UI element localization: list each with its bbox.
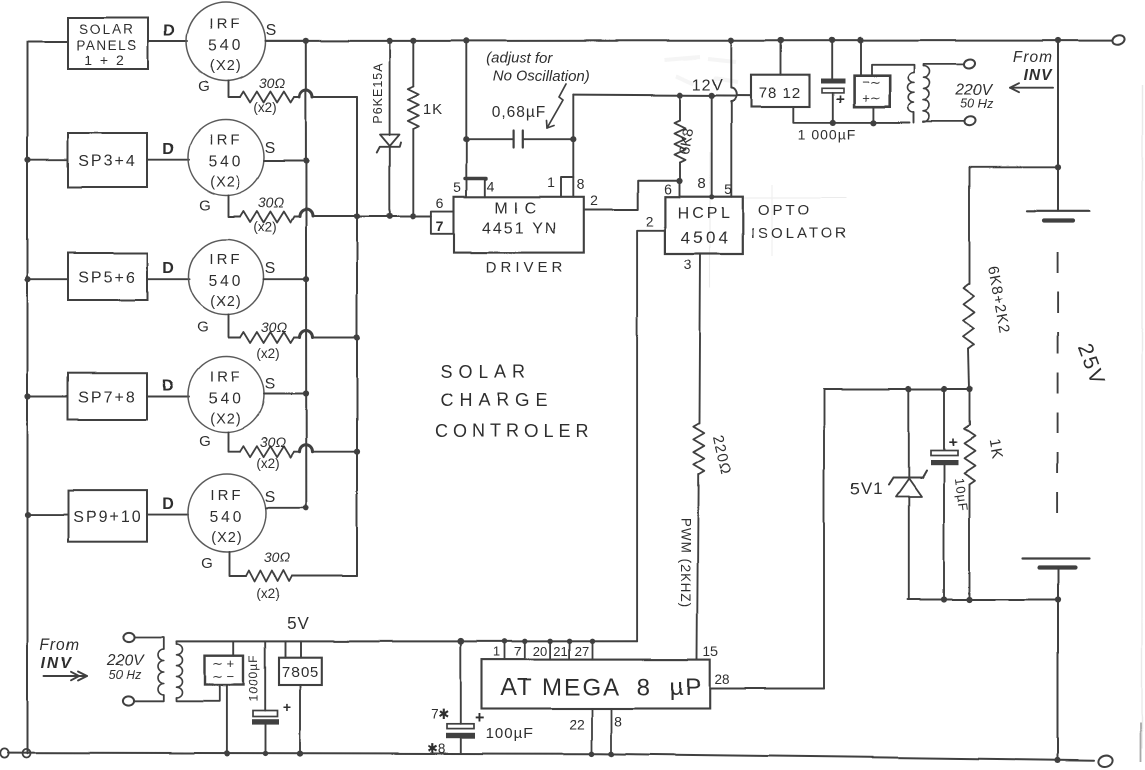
svg-text:1000µF: 1000µF	[247, 655, 261, 702]
rectifier BR2 box	[205, 656, 244, 685]
wire top rail to R-1K	[412, 41, 414, 86]
svg-text:30Ω: 30Ω	[260, 434, 287, 450]
terminal 220V-in bottom	[123, 696, 134, 705]
svg-text:1 000µF: 1 000µF	[798, 126, 857, 142]
wire top rail to HCPL pin5 (with hop)	[731, 41, 736, 197]
node gate-bus row3 junction	[354, 334, 360, 340]
svg-text:D: D	[162, 496, 174, 513]
wire gate row1 to gate bus	[313, 96, 358, 98]
wire 220R to ATmega pin15	[697, 474, 698, 660]
svg-text:5V1: 5V1	[850, 479, 883, 498]
node S-bus row4 junction	[303, 391, 309, 397]
svg-text:G: G	[201, 555, 213, 572]
wire 5V1 bottom lead	[908, 497, 910, 600]
wire T1 primary top lead	[872, 65, 915, 76]
svg-text:PANELS: PANELS	[76, 38, 137, 53]
svg-text:✱8: ✱8	[427, 741, 446, 756]
svg-text:OPTO: OPTO	[758, 202, 812, 219]
node 6K8/pin6 junction	[676, 178, 682, 184]
wire left-bus to SP3 box	[28, 278, 69, 280]
svg-text:G: G	[199, 433, 211, 450]
wire T1 secondary bottom lead	[924, 120, 965, 123]
svg-text:4504: 4504	[681, 228, 731, 247]
wire gate row4 to gate bus	[313, 451, 358, 453]
wire S lead row3	[264, 278, 307, 280]
node 5V-rail pin1 junction	[502, 639, 507, 644]
resistor 30R gate row3	[240, 332, 294, 343]
battery B1 dashed body	[1057, 252, 1059, 528]
svg-text:7: 7	[514, 644, 521, 659]
wire top rail to 7812	[780, 41, 782, 76]
svg-text:INV: INV	[1024, 67, 1054, 84]
op-amp U1 MIC4451 box	[454, 197, 584, 253]
wire gate row2 to hop	[294, 216, 300, 218]
svg-text:50 Hz: 50 Hz	[961, 97, 994, 111]
node battery bottom junction	[1055, 757, 1061, 763]
diode Z1 5V1 zener	[889, 471, 927, 485]
wire divider to 6K8+2K2	[969, 167, 971, 284]
capacitor C6 100uF plates	[447, 724, 474, 729]
wire 12V to HCPL pin8	[711, 95, 713, 196]
resistor R 6K8	[675, 120, 686, 162]
wire gate lead row4	[229, 433, 241, 452]
wire 7805 output stub	[300, 641, 302, 657]
svg-text:AT MEGA 8 µP: AT MEGA 8 µP	[501, 674, 703, 701]
node C1 left junction	[463, 136, 469, 142]
inductor T2 primary winding	[158, 649, 164, 695]
node 7805 gnd junction	[297, 751, 303, 757]
wire ATmega pin28 lead	[710, 688, 824, 690]
svg-text:G: G	[197, 319, 209, 336]
svg-text:7: 7	[436, 218, 444, 234]
node 5V/100uF junction	[457, 638, 464, 645]
rectifier BR1 box	[854, 76, 890, 107]
wire T2 primary bottom lead	[134, 695, 164, 701]
inductor T1 secondary winding	[924, 66, 930, 122]
svg-text:1 + 2: 1 + 2	[84, 52, 126, 68]
battery B1 bottom plates	[1022, 557, 1090, 559]
wire T1 primary bottom lead	[913, 112, 915, 123]
wire D1 to driver-input net	[389, 147, 391, 216]
node battery gnd-line junction	[1055, 596, 1061, 602]
arrow From-INV (top)	[1010, 87, 1053, 89]
wire gate lead row1	[229, 81, 241, 97]
resistor 1K (driver input)	[408, 86, 419, 129]
wire 12V rail down to U1 pin8	[572, 95, 574, 178]
resistor 30R gate row1	[240, 92, 294, 103]
svg-text:(x2): (x2)	[253, 219, 276, 234]
node tap 10uF junction	[941, 386, 947, 392]
arrow annotation to C1	[547, 84, 566, 128]
node top-rail bridge junction	[857, 37, 863, 43]
inductor T1 primary winding	[907, 73, 914, 113]
terminal 220V bottom	[964, 116, 977, 127]
node top-rail HCPL5 junction	[728, 38, 734, 44]
wire top rail to C2	[831, 40, 833, 78]
wire 6K8 to HCPL pin6 node	[679, 162, 681, 181]
wire BR1 bottom to gnd line	[872, 107, 874, 123]
svg-text:7✱: 7✱	[431, 707, 450, 722]
svg-text:SP3+4: SP3+4	[78, 153, 136, 170]
wire gate bus (vertical x=357)	[356, 97, 358, 576]
svg-text:(X2): (X2)	[210, 175, 241, 191]
resistor 30R gate row2	[240, 211, 294, 222]
wire hop over S-bus row1	[300, 90, 313, 97]
svg-text:100µF: 100µF	[486, 725, 534, 742]
node pin8 gnd junction	[609, 751, 615, 757]
wire D lead SP2	[147, 159, 189, 161]
svg-text:D: D	[162, 260, 174, 277]
resistor R 220R (PWM)	[693, 423, 704, 474]
wire top rail to bridge BR1	[860, 40, 862, 75]
svg-text:5: 5	[453, 179, 461, 195]
wire 1K(right) top lead	[969, 389, 971, 425]
node 10uF gnd junction	[941, 596, 947, 602]
wire HCPL pin2 to 5V bus	[637, 230, 665, 641]
svg-text:IRF: IRF	[210, 487, 243, 504]
node S-bus top junction	[303, 38, 309, 44]
svg-text:From: From	[1013, 49, 1053, 66]
transistor Q1 IRF540 (X2) circle	[187, 2, 266, 81]
node S-bus row3 junction	[303, 276, 309, 282]
resistor 30R gate row4	[240, 446, 294, 457]
svg-text:SOLAR: SOLAR	[440, 362, 531, 382]
node S-bus row2 junction	[303, 158, 309, 164]
wire gate row2 to gate bus	[313, 216, 358, 218]
regulator U3 7812 box	[751, 75, 810, 107]
node top-rail 7812 junction	[778, 37, 784, 43]
node top-rail D1 junction	[387, 38, 393, 44]
solar panel block SP5+6 box	[68, 253, 147, 300]
svg-text:(X2): (X2)	[210, 59, 241, 75]
wire hop over S-bus row3	[300, 331, 313, 338]
svg-text:SOLAR: SOLAR	[79, 22, 135, 37]
svg-text:30Ω: 30Ω	[258, 194, 285, 210]
svg-text:30Ω: 30Ω	[259, 75, 286, 91]
wire bottom ground rail	[8, 753, 1094, 761]
wire left-bus to SP5 box	[28, 514, 69, 516]
node left-bus row2 junction	[25, 157, 31, 163]
svg-text:15: 15	[703, 644, 718, 659]
wire C5 bottom lead	[265, 725, 267, 754]
node pin22 gnd junction	[589, 751, 595, 757]
node 5V-rail pin21 junction	[566, 639, 571, 644]
svg-text:D: D	[162, 377, 174, 394]
svg-text:IRF: IRF	[209, 369, 242, 386]
wire S lead row5	[266, 507, 306, 509]
wire top rail to U1 pin5	[465, 41, 467, 179]
wire C6 100uF top lead	[460, 641, 462, 724]
node 5V-rail pin20 junction	[547, 639, 552, 644]
wire S lead row2	[264, 160, 306, 162]
wire left-bus to SP2 box	[28, 159, 69, 161]
node top-rail U1-vcc junction	[463, 38, 469, 44]
microcontroller U5 ATmega8 box	[482, 660, 710, 709]
wire top rail to D1	[389, 41, 391, 135]
svg-text:5: 5	[724, 181, 732, 197]
node C1 right junction	[570, 136, 576, 142]
node top-rail C2 junction	[829, 37, 835, 43]
wire 7805 input stub	[285, 641, 287, 657]
wire C2 bottom lead	[832, 93, 834, 123]
svg-text:78 12: 78 12	[759, 85, 802, 102]
capacitor C4 10uF plates	[931, 451, 958, 456]
terminal bottom-right	[1097, 754, 1114, 769]
wire gate bus to MIC pins 6/7	[357, 216, 431, 218]
wire 5V1 top lead	[908, 389, 910, 477]
svg-text:1: 1	[493, 644, 500, 659]
svg-text:1K: 1K	[423, 101, 443, 118]
svg-text:+: +	[475, 708, 485, 727]
node D1 / input-net junction	[387, 213, 393, 219]
wire S lead row1	[266, 40, 307, 42]
wire U1 pin2 output	[584, 181, 680, 210]
svg-text:(adjust for: (adjust for	[486, 50, 554, 67]
wire BR2 plus stub	[233, 641, 235, 655]
svg-text:4: 4	[487, 178, 495, 194]
wire left panel bus (vertical, x=27)	[27, 42, 29, 754]
svg-text:12V: 12V	[692, 77, 723, 94]
svg-text:22: 22	[569, 716, 585, 732]
wire 10uF top lead	[943, 389, 945, 450]
svg-text:G: G	[199, 197, 211, 214]
svg-text:(x2): (x2)	[253, 100, 276, 115]
capacitor C2 1000uF plates	[821, 79, 845, 84]
wire D lead SP1	[148, 41, 188, 43]
wire T1 secondary top lead	[924, 64, 964, 66]
pin stub U5 pin 22	[591, 709, 593, 754]
svg-text:+: +	[836, 91, 845, 108]
svg-text:7805: 7805	[282, 664, 319, 681]
svg-text:220V: 220V	[106, 652, 145, 669]
wire gate row4 to hop	[294, 451, 300, 453]
svg-text:−∼: −∼	[862, 75, 880, 90]
svg-text:(X2): (X2)	[210, 412, 241, 428]
svg-text:+: +	[283, 699, 291, 715]
svg-text:6: 6	[436, 195, 444, 211]
wire gate row5 to gate bus	[292, 575, 357, 577]
wire left-bus to SP4 box	[28, 395, 69, 397]
wire 6K8+2K2 to tap node	[969, 349, 970, 389]
wire ADC tap to ATmega pin28 (vertical)	[823, 389, 825, 689]
svg-text:CHARGE: CHARGE	[440, 390, 553, 410]
svg-text:(X2): (X2)	[210, 294, 241, 310]
node 5V-rail pin27 junction	[589, 639, 594, 644]
wire D lead SP5	[147, 514, 188, 516]
svg-text:IRF: IRF	[209, 132, 242, 149]
svg-text:8: 8	[614, 713, 622, 729]
node C5 gnd junction	[263, 751, 268, 756]
solar panel block SP1+2 box	[68, 18, 148, 69]
node tap 5V1 junction	[906, 386, 912, 392]
wire pin6 into HCPL	[679, 181, 681, 197]
svg-text:2: 2	[646, 213, 654, 229]
node left-bus row4 junction	[25, 393, 31, 399]
wire gate lead row5	[230, 552, 247, 576]
svg-text:(X2): (X2)	[211, 530, 242, 546]
svg-text:5V: 5V	[287, 614, 310, 633]
inductor T2 secondary winding	[177, 644, 183, 698]
wire D lead SP4	[147, 395, 189, 397]
solar panel block SP3+4 box	[68, 133, 147, 187]
svg-text:S: S	[265, 140, 276, 157]
wire 12V rail	[573, 95, 751, 96]
wire 1K to driver-input net	[412, 129, 414, 216]
svg-text:From: From	[40, 637, 80, 654]
node S-bus row5 junction	[303, 505, 309, 511]
wire hop over S-bus row4	[300, 445, 313, 452]
wire divider tap	[970, 166, 1059, 168]
node C2 gnd junction	[830, 119, 836, 125]
node gate-bus row2/driver junction	[354, 213, 360, 219]
wire 1K(right) bottom lead	[969, 484, 971, 600]
node 1K / input-net junction	[410, 213, 416, 219]
arrow From-INV (bottom)	[44, 675, 87, 677]
wire ADC tap rail	[824, 388, 970, 390]
svg-text:(x2): (x2)	[256, 346, 279, 361]
node left-bus row5 junction	[25, 511, 31, 517]
svg-text:S: S	[266, 22, 277, 39]
node top-rail battery junction	[1055, 37, 1061, 43]
node 1K gnd junction	[966, 596, 972, 602]
wire 7812 gnd stub	[793, 107, 910, 123]
wire gate row3 to gate bus	[313, 337, 358, 339]
svg-text:+: +	[949, 434, 958, 451]
svg-text:8: 8	[698, 175, 706, 192]
node 5V-rail pin7 junction	[522, 639, 527, 644]
wire T2 secondary bottom lead	[177, 685, 220, 701]
svg-text:S: S	[265, 489, 276, 506]
svg-text:PWM (2KHZ): PWM (2KHZ)	[678, 518, 693, 608]
node BR2 gnd junction	[224, 750, 230, 756]
pin stub U5 pin 27	[591, 641, 593, 659]
terminal bottom-left inner	[23, 749, 31, 758]
wire D lead SP3	[147, 278, 190, 280]
wire S bus (vertical x=306)	[305, 41, 308, 508]
wire C1 right lead	[523, 138, 574, 140]
svg-text:540: 540	[209, 391, 244, 408]
terminal top-right	[1111, 34, 1126, 47]
svg-text:DRIVER: DRIVER	[486, 259, 567, 276]
diode D1 P6KE15A symbol	[380, 135, 400, 147]
wire C6 bottom lead	[460, 738, 462, 753]
svg-text:2: 2	[590, 192, 598, 208]
svg-text:G: G	[198, 78, 210, 95]
wire T2 secondary top lead	[176, 641, 178, 644]
svg-text:ISOLATOR: ISOLATOR	[751, 225, 849, 242]
svg-text:SP5+6: SP5+6	[78, 270, 136, 287]
solar panel block SP7+8 box	[68, 373, 147, 420]
svg-text:540: 540	[209, 154, 244, 171]
svg-text:D: D	[163, 23, 175, 40]
svg-text:6: 6	[664, 181, 672, 197]
node 12V HCPL-pin8 junction	[709, 92, 715, 98]
svg-text:D: D	[162, 141, 174, 158]
wire 12V to R-6K8	[679, 95, 681, 120]
pin stub U1 pins 6/7	[431, 212, 454, 234]
wire top rail (solar + / S line)	[266, 40, 1113, 42]
svg-text:S: S	[265, 260, 276, 277]
transistor Q4 IRF540 (X2) circle	[188, 357, 264, 433]
svg-text:1: 1	[547, 174, 555, 190]
wire C1 left lead	[466, 138, 513, 140]
svg-text:IRF: IRF	[209, 251, 242, 268]
node top-rail 1K junction	[410, 38, 416, 44]
svg-text:27: 27	[574, 644, 588, 659]
wire 7805 gnd lead	[299, 685, 301, 754]
pin stub U5 pin 1	[504, 641, 506, 659]
svg-text:3: 3	[684, 256, 692, 272]
svg-text:(x2): (x2)	[256, 456, 279, 471]
svg-text:SP7+8: SP7+8	[78, 389, 136, 406]
regulator U4 7805 box	[279, 658, 322, 685]
transistor Q2 IRF540 (X2) circle	[188, 120, 264, 196]
pin stub U5 pin 7	[524, 641, 526, 659]
svg-text:HCPL: HCPL	[678, 205, 733, 222]
terminal bottom-left outer	[0, 748, 8, 757]
svg-text:SP9+10: SP9+10	[73, 509, 142, 526]
wire gate lead row3	[229, 315, 241, 338]
svg-text:P6KE15A: P6KE15A	[371, 62, 385, 123]
svg-text:S: S	[265, 376, 276, 393]
svg-text:21: 21	[553, 644, 567, 659]
capacitor C1 0,68uF plates	[512, 131, 514, 148]
node gate-bus row4 junction	[354, 449, 360, 455]
wire gate row1 to hop	[294, 96, 300, 98]
svg-text:0,68µF: 0,68µF	[492, 104, 547, 121]
wire left-bus to SP1 box	[28, 41, 69, 43]
wire C5 top lead	[264, 641, 266, 710]
svg-text:540: 540	[209, 38, 244, 55]
svg-text:No Oscillation): No Oscillation)	[492, 68, 590, 85]
capacitor C5 1000uF plates	[253, 711, 278, 717]
svg-text:MIC: MIC	[494, 200, 541, 217]
wire S lead row4	[264, 393, 306, 395]
svg-text:INV: INV	[41, 655, 73, 672]
svg-text:30Ω: 30Ω	[264, 549, 291, 565]
node tap 1K junction	[966, 386, 972, 392]
svg-text:30Ω: 30Ω	[261, 319, 288, 335]
transistor Q5 IRF540 (X2) circle	[188, 474, 266, 552]
svg-text:540: 540	[210, 509, 245, 526]
svg-text:1K: 1K	[985, 437, 1005, 461]
wire 5V rail	[177, 640, 638, 642]
node battery divider junction	[1055, 164, 1061, 170]
battery B1 top plates	[1027, 210, 1090, 212]
transistor Q3 IRF540 (X2) circle	[189, 240, 264, 315]
svg-text:50 Hz: 50 Hz	[109, 668, 142, 682]
svg-text:28: 28	[714, 672, 729, 687]
terminal 220V top	[963, 58, 976, 69]
pin stub U1 pins 5/4	[467, 179, 485, 197]
node HCPL pin8 box junction	[709, 194, 714, 199]
svg-text:IRF: IRF	[209, 16, 242, 33]
pin stub U5 pin 20	[549, 641, 551, 659]
svg-text:+∼: +∼	[862, 90, 880, 105]
node BR1 gnd junction	[870, 120, 876, 126]
op-amp U2 HCPL4504 box	[665, 197, 742, 254]
pin stub U1 pins 1/8	[561, 178, 573, 197]
node left-bus row3 junction	[25, 276, 31, 282]
resistor 30R gate row5	[246, 571, 292, 582]
wire T2 primary top lead	[134, 637, 164, 649]
wire battery negative	[1057, 568, 1059, 761]
node 12V 6K8 junction	[677, 92, 683, 98]
pin stub U5 pin 21	[568, 641, 570, 659]
svg-text:∼ −: ∼ −	[212, 669, 234, 684]
wire HCPL pin3 / PWM line	[700, 254, 701, 424]
svg-text:540: 540	[209, 273, 244, 290]
